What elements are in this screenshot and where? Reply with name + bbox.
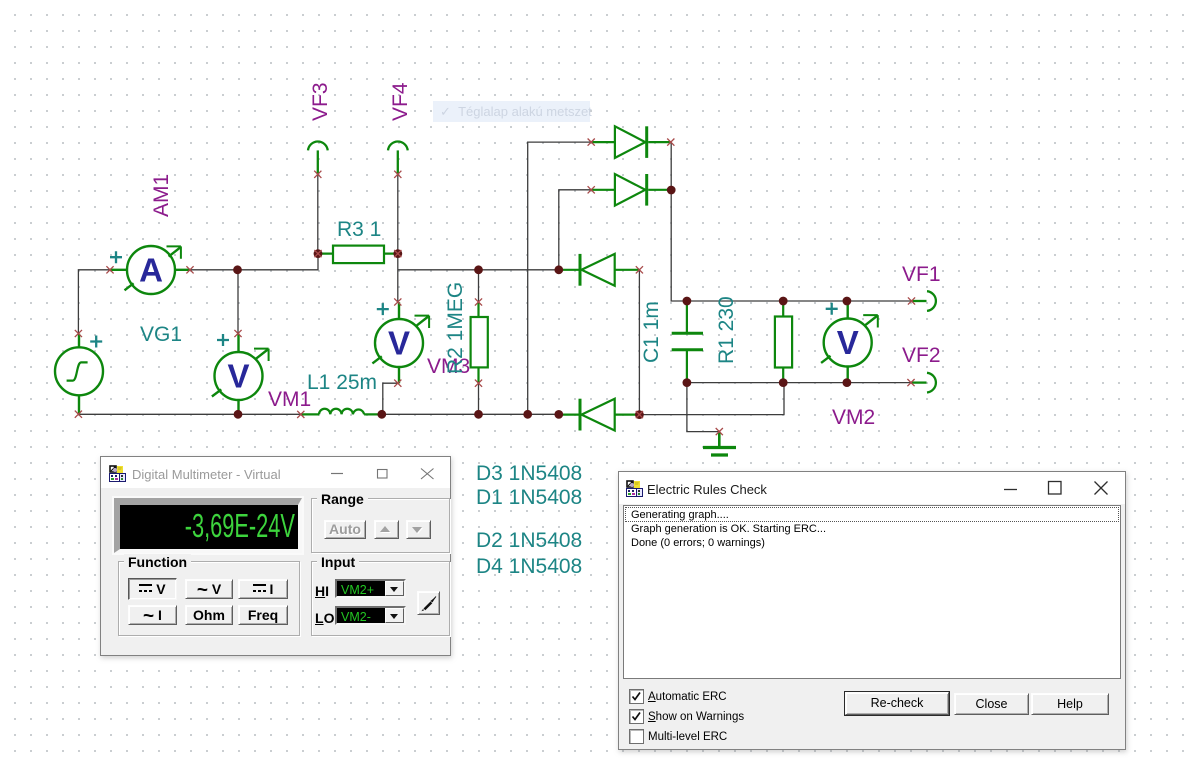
wire: [671, 142, 687, 301]
pin cross: [475, 380, 482, 387]
checkbox Show on Warnings: [629, 709, 644, 724]
svg-text:R2 1MEG: R2 1MEG: [444, 282, 467, 374]
junction: [234, 410, 243, 419]
button Re-check: [845, 692, 949, 715]
checkbox Automatic ERC: [629, 689, 644, 704]
junction: [843, 297, 852, 306]
wire: [783, 382, 847, 384]
wire: [479, 413, 528, 415]
Electric Rules Check window: [618, 471, 1126, 750]
terminal VF2: [911, 373, 936, 393]
resistor R2: [471, 302, 488, 383]
label D3 1N5408: [476, 462, 582, 485]
voltmeter VM3: [372, 302, 429, 383]
voltmeter VM3 letter: [388, 325, 410, 362]
junction: [523, 410, 532, 419]
wire: [238, 254, 319, 270]
svg-text:VF1: VF1: [902, 263, 941, 286]
svg-text:R3 1: R3 1: [337, 218, 381, 241]
label D4 1N5408: [476, 555, 582, 578]
svg-text:VF2: VF2: [902, 344, 941, 367]
junction: [314, 249, 323, 258]
junction: [635, 410, 644, 419]
svg-text:VG1: VG1: [140, 323, 182, 346]
svg-text:VM1: VM1: [268, 388, 311, 411]
Digital Multimeter window: [100, 456, 451, 656]
junction: [474, 410, 483, 419]
junction: [779, 378, 788, 387]
svg-text:D1 1N5408: D1 1N5408: [476, 486, 582, 509]
wire: [78, 270, 110, 334]
label AM1: [150, 174, 173, 217]
wire: [78, 413, 238, 415]
wire: [687, 300, 783, 302]
Input group: [311, 561, 450, 636]
pin cross: [106, 266, 113, 273]
button Help: [1031, 693, 1109, 715]
voltmeter VM1 letter: [227, 358, 249, 395]
terminal VF3: [308, 141, 328, 174]
voltage generator VG1: [55, 334, 103, 415]
svg-text:L1 25m: L1 25m: [307, 371, 377, 394]
pin cross: [314, 171, 321, 178]
label L1 25m: [307, 371, 377, 394]
wire: [528, 142, 592, 414]
pin cross: [716, 428, 723, 435]
voltage generator VG1 plus: [90, 336, 102, 348]
svg-text:AM1: AM1: [150, 174, 173, 217]
junction: [377, 410, 386, 419]
pin cross: [394, 171, 401, 178]
wire: [687, 383, 719, 432]
label VM2: [832, 406, 875, 429]
capacitor C1: [672, 301, 703, 383]
label VF2: [902, 344, 941, 367]
wire: [847, 300, 912, 302]
checkbox Multi-level ERC: [629, 729, 644, 744]
label R1 230: [715, 296, 738, 364]
wire: [383, 383, 398, 414]
voltmeter VM2: [821, 301, 878, 383]
terminal VF1: [912, 291, 936, 311]
LCD display: [114, 498, 302, 553]
ground: [703, 432, 736, 455]
diode D3: [591, 126, 671, 158]
wire: [398, 269, 479, 271]
pin cross: [394, 380, 401, 387]
svg-text:VF4: VF4: [389, 82, 412, 121]
wire: [687, 382, 783, 384]
pin cross: [475, 298, 482, 305]
tooltip Teglalap alaku metszet: [433, 101, 590, 122]
svg-text:C1 1m: C1 1m: [640, 301, 663, 363]
ERC log listbox: [623, 505, 1121, 679]
wire: [479, 269, 559, 271]
junction: [779, 297, 788, 306]
wire: [478, 383, 480, 414]
Function group: [118, 561, 300, 636]
pin cross: [588, 139, 595, 146]
voltmeter VM1 plus: [217, 334, 229, 346]
label VG1: [140, 323, 182, 346]
wire: [478, 270, 480, 302]
junction: [554, 265, 563, 274]
label VM1: [268, 388, 311, 411]
pin cross: [588, 186, 595, 193]
diode D2: [559, 254, 640, 286]
junction: [667, 186, 676, 195]
voltmeter VM2 plus: [826, 303, 838, 315]
voltmeter VM3 plus: [377, 303, 389, 315]
pin cross: [636, 266, 643, 273]
pin cross: [314, 250, 321, 257]
wire: [238, 413, 301, 415]
junction: [683, 297, 692, 306]
diode D1: [591, 174, 671, 206]
wire: [847, 382, 911, 384]
pin cross: [234, 330, 241, 337]
pin cross: [908, 297, 915, 304]
label C1 1m: [640, 301, 663, 363]
pin cross: [907, 379, 914, 386]
wire: [783, 300, 847, 302]
pin cross: [636, 411, 643, 418]
label VF1: [902, 263, 941, 286]
pin cross: [667, 139, 674, 146]
voltmeter VM2 letter: [837, 324, 859, 361]
junction: [474, 265, 483, 274]
svg-text:V: V: [227, 358, 249, 395]
svg-text:A: A: [139, 252, 163, 289]
label D2 1N5408: [476, 529, 582, 552]
wire: [638, 270, 640, 415]
diode D4: [559, 399, 640, 431]
wire: [559, 190, 591, 270]
svg-text:V: V: [837, 324, 859, 361]
pin cross: [394, 250, 401, 257]
junction: [554, 410, 563, 419]
voltmeter VM1: [212, 334, 269, 415]
wire: [397, 254, 399, 302]
button Close: [954, 693, 1029, 715]
svg-text:V: V: [388, 325, 410, 362]
label R3 1: [337, 218, 381, 241]
pin cross: [394, 298, 401, 305]
label VF4: [389, 82, 412, 121]
svg-text:D3 1N5408: D3 1N5408: [476, 462, 582, 485]
junction: [393, 249, 402, 258]
wire: [382, 413, 479, 415]
label VM3: [427, 355, 470, 378]
wire: [397, 174, 399, 253]
ammeter AM1 letter: [139, 252, 163, 289]
pin cross: [297, 411, 304, 418]
svg-text:VF3: VF3: [309, 82, 332, 121]
svg-text:D4 1N5408: D4 1N5408: [476, 555, 582, 578]
Range group: [311, 498, 450, 553]
resistor R1: [775, 301, 792, 383]
terminal VF4: [388, 141, 408, 174]
svg-text:D2 1N5408: D2 1N5408: [476, 529, 582, 552]
junction: [843, 378, 852, 387]
label D1 1N5408: [476, 486, 582, 509]
resistor R3: [318, 246, 398, 264]
junction: [233, 265, 242, 274]
ammeter AM1: [110, 246, 190, 294]
ammeter AM1 plus: [110, 251, 122, 263]
label VF3: [309, 82, 332, 121]
svg-text:VM2: VM2: [832, 406, 875, 429]
wire: [190, 269, 238, 271]
inductor L1: [301, 409, 382, 415]
pin cross: [186, 266, 193, 273]
pin cross: [75, 330, 82, 337]
wire: [528, 413, 559, 415]
svg-text:R1 230: R1 230: [715, 296, 738, 364]
pin cross: [75, 411, 82, 418]
wire: [639, 383, 784, 415]
label R2 1MEG: [444, 282, 467, 374]
wire: [317, 174, 319, 253]
junction: [683, 378, 692, 387]
wire: [237, 270, 239, 334]
